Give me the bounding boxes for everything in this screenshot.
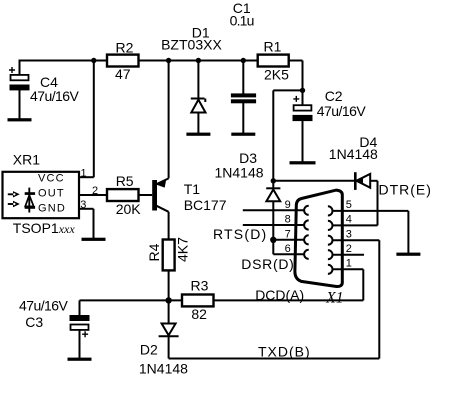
svg-text:TXD(B): TXD(B) — [258, 344, 311, 360]
svg-text:D2: D2 — [140, 342, 158, 358]
svg-text:T1: T1 — [184, 181, 201, 197]
svg-text:R3: R3 — [191, 277, 209, 293]
svg-text:X1: X1 — [325, 289, 343, 306]
svg-text:1N4148: 1N4148 — [215, 164, 264, 180]
svg-text:1: 1 — [81, 168, 87, 180]
svg-text:DCD(A): DCD(A) — [255, 287, 304, 303]
svg-text:C2: C2 — [325, 88, 343, 104]
svg-text:1N4148: 1N4148 — [139, 361, 188, 377]
svg-text:1: 1 — [346, 258, 352, 270]
svg-text:XR1: XR1 — [13, 152, 40, 168]
svg-text:R2: R2 — [116, 40, 134, 56]
svg-text:3: 3 — [346, 229, 352, 241]
svg-text:BC177: BC177 — [184, 197, 227, 213]
svg-text:VCC: VCC — [38, 172, 65, 184]
svg-text:3: 3 — [80, 199, 86, 211]
svg-text:8: 8 — [285, 214, 291, 226]
svg-text:BZT03XX: BZT03XX — [161, 37, 222, 53]
svg-text:5: 5 — [346, 199, 352, 211]
svg-text:20K: 20K — [116, 201, 142, 217]
svg-text:R4: R4 — [146, 243, 162, 261]
svg-text:DSR(D): DSR(D) — [241, 256, 294, 272]
svg-text:9: 9 — [285, 199, 291, 211]
svg-text:GND: GND — [38, 202, 66, 214]
svg-text:R1: R1 — [264, 39, 282, 55]
svg-text:47: 47 — [115, 66, 131, 82]
svg-text:OUT: OUT — [38, 187, 65, 199]
svg-text:R5: R5 — [116, 173, 134, 189]
svg-text:RTS(D): RTS(D) — [213, 226, 267, 242]
svg-text:47u/16V: 47u/16V — [19, 297, 69, 313]
svg-text:4: 4 — [346, 214, 352, 226]
svg-text:4K7: 4K7 — [175, 237, 191, 262]
svg-text:7: 7 — [285, 229, 291, 241]
svg-text:2: 2 — [92, 185, 98, 197]
svg-text:47u/16V: 47u/16V — [30, 88, 80, 104]
svg-text:DTR(E): DTR(E) — [379, 182, 432, 198]
svg-text:47u/16V: 47u/16V — [317, 103, 367, 119]
svg-text:C3: C3 — [25, 314, 43, 330]
svg-text:2: 2 — [346, 243, 352, 255]
svg-text:6: 6 — [285, 243, 291, 255]
svg-text:TSOP1xxx: TSOP1xxx — [13, 220, 76, 236]
svg-text:2K5: 2K5 — [264, 67, 289, 83]
svg-text:82: 82 — [191, 306, 207, 322]
svg-text:1N4148: 1N4148 — [329, 146, 378, 162]
svg-text:0.1u: 0.1u — [230, 12, 254, 28]
